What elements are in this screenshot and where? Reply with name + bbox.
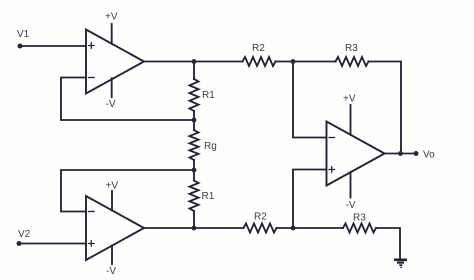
resistor R3 (top feedback) bbox=[336, 57, 369, 66]
op-amp U1 plus input mark bbox=[89, 43, 95, 49]
op-amp U2 -V supply stub bbox=[111, 246, 113, 264]
svg-text:R1: R1 bbox=[202, 191, 215, 202]
wire R2 top to R3 top (node B) bbox=[276, 61, 336, 63]
resistor R3 (bottom, to ground) bbox=[343, 224, 376, 233]
wire V2 input to op-amp U2 non-inverting input bbox=[19, 243, 86, 245]
resistor R1 (top vertical) bbox=[190, 79, 199, 111]
svg-text:-V: -V bbox=[106, 266, 116, 277]
svg-text:V1: V1 bbox=[17, 29, 30, 40]
wire node B down to U3 inverting input bbox=[293, 62, 327, 138]
node V1 terminal dot bbox=[18, 44, 23, 49]
wire U3 output to Vo terminal bbox=[385, 153, 417, 155]
node output feedback junction dot bbox=[398, 151, 403, 156]
node U2-output / R1 junction dot bbox=[192, 226, 197, 231]
svg-text:+V: +V bbox=[105, 12, 118, 23]
svg-text:R2: R2 bbox=[252, 43, 265, 54]
svg-text:Rg: Rg bbox=[204, 141, 217, 152]
node U1-output / R1 junction dot bbox=[192, 59, 197, 64]
op-amp U1 minus input mark bbox=[89, 77, 95, 79]
svg-text:+V: +V bbox=[106, 181, 119, 192]
node V2 terminal dot bbox=[17, 241, 22, 246]
svg-text:+V: +V bbox=[343, 94, 356, 105]
svg-text:Vo: Vo bbox=[423, 150, 435, 161]
wire node A between R1 top and Rg bbox=[193, 111, 195, 130]
op-amp U2 triangle bbox=[86, 196, 144, 260]
wire node C up to U3 non-inverting input bbox=[293, 170, 327, 229]
op-amp U1 -V supply stub bbox=[111, 78, 113, 97]
svg-text:-V: -V bbox=[106, 99, 116, 110]
op-amp U1 +V supply stub bbox=[111, 24, 113, 44]
op-amp U2 +V supply stub bbox=[111, 191, 113, 210]
op-amp U3 triangle bbox=[327, 122, 385, 186]
svg-text:R3: R3 bbox=[345, 43, 358, 54]
wire middle chain: U1 output node to R1 top bbox=[193, 62, 195, 80]
wire node D between Rg and R1 bottom bbox=[193, 160, 195, 181]
wire U1 output rail to R2 top bbox=[144, 61, 243, 63]
resistor Rg (gain resistor) bbox=[190, 130, 199, 160]
op-amp U3 plus input mark bbox=[329, 167, 335, 173]
wire U1 inverting input feedback (left, down, right to node A) bbox=[61, 78, 194, 121]
ground symbol bbox=[394, 260, 407, 268]
wire U2 inverting input feedback (left, up, right to node D) bbox=[61, 170, 194, 212]
wire V1 input to op-amp U1 non-inverting input bbox=[20, 45, 86, 47]
wire R2 bottom to R3 bottom (node C) bbox=[277, 227, 344, 229]
node C junction dot (R2/R3 bottom) bbox=[291, 226, 296, 231]
svg-text:R2: R2 bbox=[254, 212, 267, 223]
op-amp U3 +V supply stub bbox=[350, 105, 352, 135]
resistor R2 (top) bbox=[243, 57, 276, 66]
node Vo terminal dot bbox=[414, 151, 419, 156]
op-amp U2 minus input mark bbox=[89, 211, 95, 213]
svg-text:R3: R3 bbox=[353, 213, 366, 224]
svg-text:V2: V2 bbox=[18, 229, 31, 240]
wire U2 output rail to R2 bottom bbox=[144, 227, 244, 229]
resistor R1 (bottom vertical) bbox=[190, 181, 199, 212]
wire R3 bottom right corner down to ground bbox=[376, 228, 400, 258]
op-amp U1 triangle bbox=[86, 30, 144, 94]
resistor R2 (bottom) bbox=[244, 224, 277, 233]
node D junction dot (Rg/R1) bbox=[192, 168, 197, 173]
op-amp U3 -V supply stub bbox=[350, 172, 352, 197]
svg-text:-V: -V bbox=[346, 200, 356, 211]
wire R3 top right corner down to output node bbox=[369, 62, 402, 154]
op-amp U2 plus input mark bbox=[89, 241, 95, 247]
op-amp U3 minus input mark bbox=[329, 137, 335, 139]
svg-text:R1: R1 bbox=[202, 90, 215, 101]
node B junction dot (R2/R3 top) bbox=[291, 59, 296, 64]
node A junction dot (R1/Rg) bbox=[192, 118, 197, 123]
wire R1 bottom to U2 output rail bbox=[193, 211, 195, 228]
